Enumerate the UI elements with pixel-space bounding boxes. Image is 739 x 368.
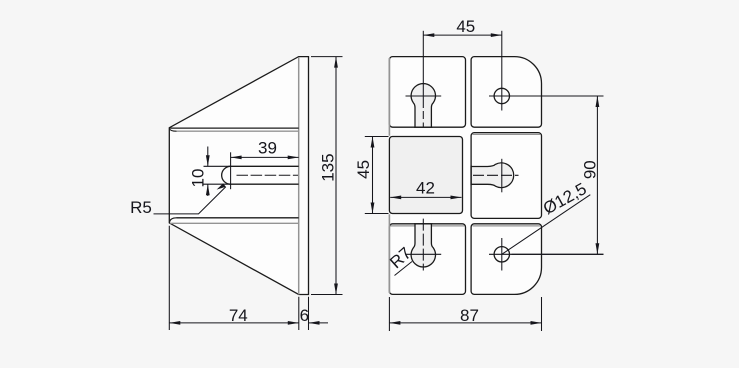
dim 135: arrows [334,57,338,295]
extension line at slot arc center (for dim 39) [230,152,232,189]
hole top right [494,88,509,103]
R5 leader [154,187,226,214]
top right hole centerlines [501,31,503,111]
dim 74: arrows [169,321,298,325]
panel row1 left [389,57,465,128]
bottom keyhole slot [411,224,435,267]
dim 87: extension lines [389,297,541,331]
plate left edge (tangent, grey) [388,58,390,293]
dim 90: dimension line [596,96,598,254]
left view: web top fillet [169,128,176,131]
dia 12,5 leader [502,195,591,255]
svg-text:135: 135 [318,153,337,181]
svg-text:42: 42 [416,179,435,198]
left view: slot bottom edge [231,183,299,185]
plate silhouette (white) [389,57,541,295]
left view: plate left face (tangent edge, grey) [298,57,300,294]
left view: web top tangent (grey) [177,130,299,132]
left view: web top edge [170,127,299,129]
dim 6: outside arrow with tail [309,322,329,324]
middle keyhole centerlines [473,174,519,176]
extension lines for dim 10 (slot height) [204,166,231,184]
dim 135: dimension line [335,57,337,295]
row3 top tangent (grey) [391,225,541,227]
dim 45 left: dimension line [372,137,374,214]
row2 top tangent (grey) [473,133,540,135]
panel row2 right [471,133,541,219]
panel edge re-strokes across keyhole slots [414,127,471,224]
svg-text:45: 45 [456,17,475,36]
dim 45 left: extension lines [365,137,389,214]
dim 74/6: extension lines [169,226,308,330]
bottom right hole centerlines [501,238,503,271]
svg-text:39: 39 [258,139,277,158]
svg-text:87: 87 [460,306,479,325]
left view: web bottom tangent (grey) [170,222,298,224]
top keyhole slot (R7 circle + open slot) [411,84,435,128]
left side view: bracket silhouette [169,57,308,295]
left view: web bottom edge [177,217,299,219]
svg-text:10: 10 [188,169,207,188]
left view: slot top edge [231,165,299,167]
dim 45 top: dimension line [423,34,502,36]
dim 39: dimension line [231,156,299,158]
dim 42: dimension line [390,196,461,198]
panel row3 right (large bottom-right corner) [471,224,541,295]
bottom keyhole centerlines [422,219,424,271]
dim 10: bottom arrow with tail [207,184,209,196]
dim 39: arrows [231,156,299,160]
left view: slot left end arc R5 [222,166,231,184]
svg-text:74: 74 [229,306,248,325]
panel row3 left [389,224,465,295]
R7 leader [395,262,413,276]
middle keyhole slot (horizontal) [471,163,514,188]
dim 74: dimension line [169,322,298,324]
dim 10: top arrow with tail [207,147,209,167]
panel row1 right (large top-right corner) [471,57,541,128]
left view: slot centerline (dash-dot) [237,174,299,176]
dim 135: extension lines [311,57,343,295]
dim 90: extension line bottom [512,253,604,255]
dim 87: dimension line [389,322,541,324]
svg-text:45: 45 [354,160,373,179]
hole bottom right [494,247,509,262]
svg-text:6: 6 [300,306,309,325]
left view: web bottom fillet [169,218,176,223]
svg-text:R5: R5 [130,198,152,217]
svg-text:90: 90 [580,160,599,179]
square hole 42x45 [389,137,462,214]
top keyhole centerlines [422,31,424,108]
